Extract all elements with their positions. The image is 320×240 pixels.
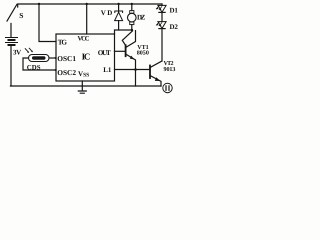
transistor VT2 9013	[150, 61, 162, 86]
svg-text:3V: 3V	[13, 49, 21, 57]
wire top rail	[18, 4, 162, 7]
wire D1 to D2	[161, 12, 163, 21]
svg-text:OSC2: OSC2	[57, 68, 76, 77]
wire CDS left lead down to OSC2	[23, 58, 56, 70]
wire VCC pin	[86, 4, 88, 34]
wire D2 to VT2 collector	[161, 29, 163, 61]
svg-text:D1: D1	[170, 6, 179, 14]
svg-text:VT2: VT2	[164, 60, 174, 67]
wire L1 pin to VT2 base	[115, 69, 151, 71]
svg-text:OUT: OUT	[98, 49, 111, 57]
svg-text:DZ: DZ	[137, 13, 146, 21]
svg-text:VCC: VCC	[78, 35, 90, 42]
LED D2	[156, 22, 166, 29]
ground	[78, 86, 86, 93]
wire bottom rail	[11, 85, 162, 87]
wire CDS right lead to OSC1	[49, 57, 56, 59]
IC U1 box	[56, 34, 115, 81]
LED D1	[156, 4, 166, 12]
svg-text:9013: 9013	[164, 66, 176, 73]
svg-text:VD: VD	[101, 9, 113, 17]
svg-text:OSC1: OSC1	[57, 54, 76, 63]
wire VSS pin	[81, 81, 83, 86]
node L1 emitter crossing	[134, 68, 137, 71]
svg-text:IC: IC	[82, 52, 91, 62]
wire TG drop	[39, 4, 56, 42]
figure mark circled 11	[163, 83, 172, 92]
wire DZ node to VT1 collector	[122, 31, 132, 46]
wire VD DZ node to IC corner	[115, 30, 133, 34]
svg-text:8050: 8050	[137, 49, 149, 56]
transistor VT1 8050	[115, 31, 136, 86]
svg-text:D2: D2	[170, 23, 179, 31]
svg-text:L1: L1	[103, 66, 112, 74]
svg-text:S: S	[19, 11, 23, 20]
wire battery to bottom rail	[10, 46, 12, 86]
photoresistor CDS	[25, 48, 49, 61]
svg-text:CDS: CDS	[27, 65, 41, 72]
battery B 3V	[6, 38, 18, 46]
bell DZ	[128, 4, 137, 31]
switch S	[7, 5, 17, 38]
svg-text:TG: TG	[58, 39, 68, 47]
node rail junction dots	[38, 3, 133, 71]
diode VD	[115, 4, 123, 30]
